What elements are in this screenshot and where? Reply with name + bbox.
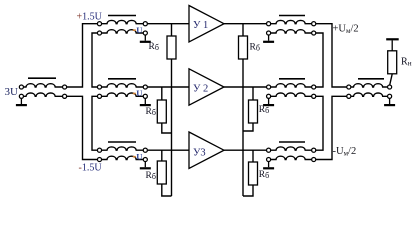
ground at T4 secondary bottom <box>140 162 151 170</box>
node T5 secondary top terminal <box>312 22 316 26</box>
resistor R6b output row3 <box>249 162 258 185</box>
node input bottom terminal <box>19 94 23 98</box>
svg-text:-Uм/2: -Uм/2 <box>333 146 357 158</box>
node T5 primary top terminal <box>267 22 271 26</box>
svg-text:-1.5U: -1.5U <box>79 163 103 174</box>
ground at T5 primary bottom <box>263 35 274 43</box>
svg-text:U: U <box>136 25 142 35</box>
transformer T1 primary bottom winding <box>24 93 63 96</box>
ground at T2 secondary bottom <box>140 35 151 43</box>
node T8 secondary top terminal <box>388 85 392 89</box>
node T4 secondary bottom terminal <box>143 157 147 161</box>
wire T3 secondary to amplifier input <box>148 86 189 88</box>
wire T7 secondary bottom to T8 primary bottom (-Um/2 rail) <box>316 96 347 159</box>
transformer T1 core <box>28 77 56 79</box>
node T6 primary top terminal <box>267 85 271 89</box>
node T6 primary bottom terminal <box>267 94 271 98</box>
node T3 secondary bottom terminal <box>143 94 147 98</box>
label U polarity mark T3 <box>133 88 143 98</box>
svg-text:У3: У3 <box>193 147 206 158</box>
node T1 secondary top terminal <box>63 85 67 89</box>
ground at T7 primary bottom <box>263 162 274 170</box>
transformer T1 primary top winding <box>24 84 63 87</box>
transformer T6 bottom winding <box>271 93 312 96</box>
transformer T4 bottom winding <box>102 156 143 159</box>
resistor Rn load <box>388 51 397 74</box>
wire common output bias line <box>242 59 244 196</box>
svg-text:У 2: У 2 <box>193 84 208 95</box>
wire U3 output to T7 <box>224 149 266 151</box>
transformer T6 top winding <box>271 84 312 87</box>
node T2 primary top terminal <box>97 22 101 26</box>
transformer T8 bottom winding <box>351 93 387 96</box>
transformer T2 core <box>108 15 136 17</box>
node T3 primary bottom terminal <box>97 94 101 98</box>
transformer T3 core <box>108 78 136 80</box>
svg-text:Rб: Rб <box>146 171 156 181</box>
transformer T4 top winding <box>102 147 143 150</box>
wire row2 output wire to R5b <box>252 87 254 100</box>
node T5 secondary bottom terminal <box>312 31 316 35</box>
transformer T2 top winding <box>102 20 143 23</box>
node T2 primary bottom terminal <box>97 31 101 35</box>
svg-text:Rб: Rб <box>259 105 269 115</box>
transformer T3 bottom winding <box>102 93 143 96</box>
svg-text:Rн: Rн <box>401 56 412 67</box>
node T7 secondary bottom terminal <box>312 157 316 161</box>
transformer T8 core <box>358 78 384 80</box>
svg-text:Rб: Rб <box>149 42 159 52</box>
node T8 primary bottom terminal <box>347 94 351 98</box>
node T7 primary bottom terminal <box>267 157 271 161</box>
ground at T6 primary bottom <box>263 99 274 107</box>
resistor R1b input row1 <box>167 36 176 59</box>
node T3 secondary top terminal <box>143 85 147 89</box>
wire R3b bottom jog to common line <box>162 184 172 196</box>
wire T2 secondary to amplifier input <box>148 23 189 25</box>
wire U1 output to T5 <box>224 23 266 25</box>
wire row3 output wire to R6b <box>252 150 254 162</box>
wire T6 secondary bottom to T7 secondary top <box>316 96 323 150</box>
svg-text:Rб: Rб <box>250 43 260 53</box>
wire common input bias line <box>171 59 173 196</box>
wire T1 secondary top to T2 primary top (+1.5U rail) <box>67 24 97 87</box>
node T4 primary bottom terminal <box>97 157 101 161</box>
wire R6b bottom jog to common line <box>243 185 253 196</box>
resistor R5b output row2 <box>249 100 258 123</box>
resistor R3b input row3 <box>157 161 166 184</box>
svg-text:3U: 3U <box>5 86 19 98</box>
svg-text:U: U <box>136 151 142 161</box>
transformer T2 bottom winding <box>102 30 143 33</box>
wire T5 secondary bottom to T6 secondary top <box>316 33 323 87</box>
wire R5b bottom jog to common line <box>243 123 253 131</box>
node T7 primary top terminal <box>267 148 271 152</box>
transformer T7 bottom winding <box>271 156 312 159</box>
wire row1 input wire to R1b <box>171 24 173 36</box>
transformer T3 top winding <box>102 84 143 87</box>
wire T1 secondary bottom to T4 primary bottom (-1.5U rail) <box>67 96 97 159</box>
node T8 primary top terminal <box>347 85 351 89</box>
node T4 primary top terminal <box>97 148 101 152</box>
wire R2b bottom jog to common line <box>162 123 172 133</box>
wire T3 primary bottom to T4 primary top <box>92 96 97 150</box>
node T1 secondary bottom terminal <box>63 94 67 98</box>
label U polarity mark T2 <box>133 25 143 35</box>
op-amp U3 triangle <box>189 132 224 168</box>
op-amp U1 triangle <box>189 6 224 42</box>
node T6 secondary bottom terminal <box>312 94 316 98</box>
wire T8 secondary top to Rn <box>390 74 393 85</box>
node T3 primary top terminal <box>97 85 101 89</box>
ground at input bottom terminal <box>16 99 27 107</box>
node T5 primary bottom terminal <box>267 31 271 35</box>
wire row3 input wire to R3b <box>161 150 163 161</box>
resistor R4b output row1 <box>239 36 248 59</box>
transformer T5 bottom winding <box>271 30 312 33</box>
ground bar above Rn <box>386 38 399 40</box>
node input top terminal <box>19 85 23 89</box>
transformer T7 core <box>279 141 305 143</box>
wire Rn top to ground bar <box>391 40 393 51</box>
svg-text:+1.5U: +1.5U <box>77 12 103 23</box>
node T2 secondary bottom terminal <box>143 31 147 35</box>
resistor R2b input row2 <box>157 100 166 123</box>
svg-text:U: U <box>136 88 142 98</box>
transformer T7 top winding <box>271 147 312 150</box>
svg-text:Rб: Rб <box>146 107 156 117</box>
transformer T6 core <box>279 78 305 80</box>
wire row2 input wire to R2b <box>161 87 163 100</box>
node T2 secondary top terminal <box>143 22 147 26</box>
op-amp U2 triangle <box>189 69 224 105</box>
transformer T4 core <box>108 141 136 143</box>
wire T5 secondary top to T8 primary top (+Um/2 rail) <box>316 24 347 87</box>
node T8 secondary bottom terminal <box>388 94 392 98</box>
svg-text:Rб: Rб <box>259 170 269 180</box>
wire row1 output wire to R4b <box>242 24 244 36</box>
transformer T5 core <box>279 15 305 17</box>
wire U2 output to T6 <box>224 86 266 88</box>
wire T2 primary bottom to T3 primary top <box>92 33 97 87</box>
svg-text:У 1: У 1 <box>193 20 208 31</box>
transformer T5 top winding <box>271 20 312 23</box>
label U polarity mark T4 <box>133 151 143 161</box>
node T6 secondary top terminal <box>312 85 316 89</box>
node T4 secondary top terminal <box>143 148 147 152</box>
transformer T8 top winding <box>351 84 387 87</box>
wire T4 secondary to amplifier input <box>148 149 189 151</box>
svg-text:+Uм/2: +Uм/2 <box>333 24 359 36</box>
node T7 secondary top terminal <box>312 148 316 152</box>
ground at T8 secondary bottom <box>384 99 395 107</box>
ground at T3 secondary bottom <box>140 99 151 107</box>
